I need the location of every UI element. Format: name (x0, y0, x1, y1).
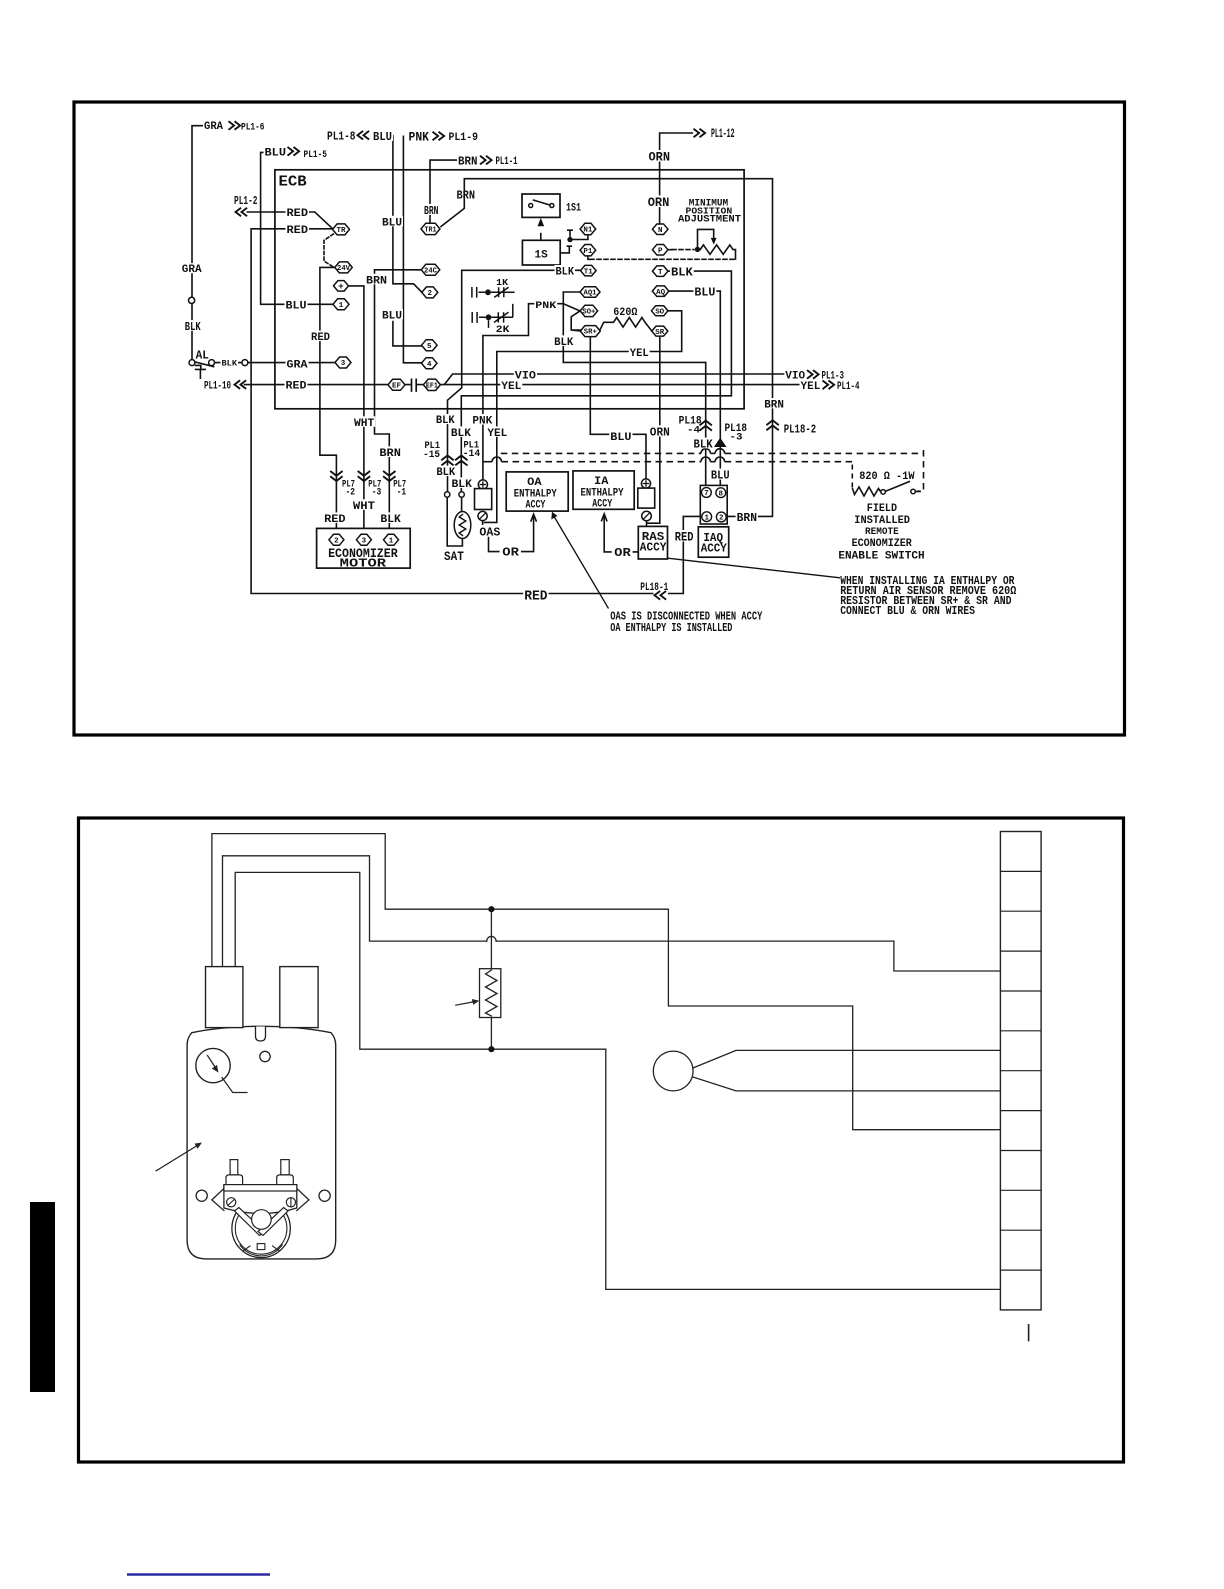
sensor flag wires to strip rows 6 and 7 (693, 1050, 1001, 1091)
label RED on 24V drop (310, 331, 331, 342)
bolt left shaft (230, 1160, 238, 1175)
svg-text:PL1-10: PL1-10 (204, 380, 231, 392)
svg-text:SO: SO (655, 309, 664, 317)
svg-text:OAS: OAS (479, 526, 500, 539)
wire RED row2 down left side, bottom RED run, up to IAQ terminal 1 (251, 229, 702, 594)
bottom panel border (79, 818, 1124, 1462)
svg-text:EF: EF (392, 383, 401, 391)
left black tab (30, 1202, 55, 1392)
label BLK PL18-4 drop (693, 438, 714, 449)
switch circle left (881, 490, 886, 495)
svg-text:3: 3 (362, 538, 367, 546)
label PNK arrow PL1-9 (408, 130, 431, 142)
svg-text:BLU: BLU (373, 130, 392, 144)
wire BLU segment to terminal 5 (393, 322, 422, 346)
wheel lower details (240, 1245, 282, 1256)
trimpot 2K (472, 304, 513, 323)
arrow PL1-12 label (694, 129, 706, 138)
IAQ block terminal 7 (702, 488, 712, 498)
terminal EF (388, 379, 405, 390)
label RED IAQ terminal 1 (674, 530, 695, 542)
dashed row upper (to remote enable switch) (501, 452, 701, 454)
junction dot pot (695, 247, 700, 252)
svg-text:1: 1 (339, 302, 344, 310)
terminal EF1 (423, 379, 440, 390)
label BLK PL1-14 lower (451, 477, 473, 488)
connector PL7-3 arrow (358, 471, 370, 481)
RAS sensor body (638, 488, 655, 508)
label 620ohm (612, 306, 638, 316)
blue underline bottom left (127, 1573, 270, 1576)
svg-text:BRN: BRN (737, 512, 757, 525)
svg-text:GRA: GRA (204, 121, 223, 133)
box IAQ ACCY (698, 527, 728, 557)
label BLU row (285, 299, 308, 310)
dashed link TR to 24V (324, 234, 334, 267)
svg-text:PL1-1: PL1-1 (496, 156, 518, 168)
svg-text:MOTOR: MOTOR (340, 556, 386, 570)
terminal 3 (335, 357, 351, 368)
terminal P (652, 244, 668, 255)
svg-text:TR: TR (337, 227, 346, 235)
arrow pointing at resistor (456, 1002, 475, 1006)
wire ORN top to N and PL1-12 (660, 133, 693, 224)
svg-text:1: 1 (704, 514, 709, 522)
label PNK jumper (534, 299, 557, 309)
wire GRA row into ECB to terminal 3 (248, 362, 335, 364)
svg-text:PL1-5: PL1-5 (304, 149, 328, 160)
wire BLK stub to GRA row (215, 362, 242, 364)
svg-text:ORN: ORN (649, 151, 671, 165)
svg-text:BLK: BLK (185, 321, 201, 334)
junction dot resistor top (488, 906, 494, 912)
wire RED PL1-10 row to EF (245, 384, 389, 386)
svg-text:GRA: GRA (182, 264, 202, 276)
thermistor SAT (454, 512, 471, 539)
actuator terminal stub left (206, 967, 243, 1028)
leader OAS note with arrowhead (554, 516, 609, 609)
svg-text:+: + (338, 282, 343, 292)
svg-text:T: T (658, 269, 663, 277)
IAQ block terminal 1 (702, 512, 712, 522)
wire dot to N1 (570, 235, 588, 240)
svg-text:BRN: BRN (458, 155, 478, 169)
svg-text:SAT: SAT (444, 549, 464, 564)
tick below strip (1028, 1325, 1030, 1341)
wire B actuator to strip row4 (223, 856, 1001, 971)
wire GRA vertical to PL1-6 (192, 126, 205, 360)
svg-text:P1: P1 (583, 248, 592, 256)
svg-text:PNK: PNK (535, 300, 557, 312)
svg-text:-4: -4 (687, 424, 700, 436)
svg-text:N: N (658, 227, 663, 235)
svg-text:BRN: BRN (379, 448, 401, 460)
svg-text:CONNECT BLU & ORN WIRES: CONNECT BLU & ORN WIRES (840, 605, 975, 618)
label BLU RAS link (609, 431, 632, 441)
svg-text:RED: RED (286, 381, 307, 393)
svg-text:FIELD: FIELD (867, 503, 897, 515)
wire jumper SO+ to SR+ (571, 311, 581, 331)
svg-text:YEL: YEL (501, 381, 521, 393)
ECB board outline (275, 170, 744, 409)
bracket screw left (227, 1198, 236, 1207)
label PNK OAS drop (471, 414, 493, 425)
svg-text:ACCY: ACCY (592, 498, 612, 510)
svg-text:OR: OR (502, 546, 520, 560)
coupler wheel inner rim (235, 1203, 287, 1255)
splice circle PL1-14/SAT (459, 492, 464, 497)
terminal N1 (580, 223, 596, 234)
svg-text:2: 2 (334, 538, 339, 546)
actuator keyhole notch (256, 1027, 266, 1042)
terminal 2 (422, 287, 438, 298)
terminal 4 (421, 358, 437, 369)
svg-text:BLU: BLU (265, 148, 287, 160)
svg-text:BLU: BLU (286, 300, 307, 312)
label YEL row left (500, 380, 522, 391)
label RED motor (323, 512, 347, 523)
wire SO right riser to YEL row down to OAS minus node (485, 311, 682, 523)
wire VIO from EF1 to PL1-3 (445, 374, 784, 384)
svg-text:ECB: ECB (279, 175, 308, 191)
svg-text:REMOTE: REMOTE (865, 526, 899, 538)
actuator terminal stub right (280, 967, 318, 1028)
coupler wheel outer (232, 1199, 290, 1257)
svg-text:BLU: BLU (382, 310, 402, 322)
wire RAS minus node to ORN and RAS ACCY (647, 521, 660, 527)
wire BLK T1 drop to PL1-15 and SAT loop (447, 270, 580, 546)
switch AL right contact (209, 360, 215, 366)
svg-text:ACCY: ACCY (640, 541, 667, 554)
svg-text:ADJUSTMENT: ADJUSTMENT (678, 215, 741, 226)
terminal AQ1 (580, 287, 600, 298)
minimum position potentiometer: dashed from P (668, 249, 672, 251)
svg-text:T1: T1 (584, 268, 593, 276)
svg-text:24C: 24C (424, 267, 438, 275)
terminal T1 (581, 265, 597, 276)
wire PNK diagonal to SO+ (563, 304, 580, 311)
svg-text:4: 4 (427, 361, 432, 369)
label ECB (276, 172, 308, 188)
svg-text:2: 2 (719, 515, 724, 523)
connector PL1-14 arrow (455, 456, 467, 466)
wire IA box OR link to RAS ACCY (604, 525, 638, 552)
label YEL arrow PL1-4 (800, 380, 822, 391)
label BLK motor (379, 512, 402, 523)
wire BLU from SR+ down to RAS plus (590, 337, 646, 479)
svg-text:YEL: YEL (630, 348, 649, 360)
label BLK left wire (184, 320, 202, 331)
leader RAS note (668, 558, 840, 578)
label WHT below ECB (353, 416, 375, 427)
wire YEL from EF1 to PL1-4 (441, 384, 800, 386)
motor terminal 1 (384, 534, 399, 545)
wire PNK PL1-9 drop to terminal 4 (403, 136, 421, 362)
dashed from P1 to pot end (588, 256, 590, 259)
svg-text:ORN: ORN (650, 426, 670, 440)
svg-text:BLK: BLK (451, 428, 471, 440)
RAS sensor minus terminal (642, 511, 652, 521)
svg-text:3: 3 (341, 360, 346, 368)
RAS sensor plus terminal (641, 479, 650, 488)
wire EF capacitor gap (405, 384, 424, 386)
motor terminal 3 (356, 534, 371, 545)
actuator body (187, 1026, 336, 1259)
OAS sensor minus terminal (478, 511, 487, 520)
svg-text:RED: RED (324, 514, 346, 526)
motor terminal 2 (329, 534, 344, 545)
connector PL1-15 arrow (441, 456, 453, 466)
svg-text:2K: 2K (496, 325, 510, 336)
resistor 620ohm between SR+ and SR (599, 318, 652, 332)
label GRA left wire (181, 263, 203, 273)
connector PL7-1 arrow (383, 471, 395, 481)
label BLK PL1-15 lower (435, 466, 456, 477)
svg-text:-3: -3 (372, 487, 382, 498)
svg-text:SR+: SR+ (584, 329, 597, 337)
label BLK PL1-15 upper (435, 414, 456, 424)
wire BLK T drop via right riser to PL1-14 and SAT top (461, 271, 731, 512)
bolt left nut (226, 1175, 243, 1185)
label BRN on 24C drop (365, 274, 388, 285)
svg-text:WHT: WHT (353, 501, 375, 513)
actuator mount hole right (319, 1190, 330, 1201)
svg-text:PL1-2: PL1-2 (234, 194, 258, 208)
svg-text:2: 2 (428, 290, 433, 298)
terminal N (652, 224, 668, 235)
box RAS ACCY (638, 526, 667, 559)
wire 24C BRN drop to PL7-1 motor 1 (375, 270, 422, 535)
terminal 1 (333, 299, 349, 310)
switch AL left contact (189, 360, 195, 366)
junction dot near N1 (567, 237, 572, 242)
svg-text:PL18-2: PL18-2 (784, 422, 816, 436)
svg-text:BRN: BRN (366, 275, 387, 287)
wire 24V to RED drop to PL7-2 motor 2 (320, 267, 337, 534)
wire BLU PL1-5 down to terminal 1 of ECB (261, 152, 334, 304)
label BLU arrow PL1-5 (264, 146, 288, 157)
svg-text:SR: SR (655, 329, 664, 337)
svg-text:BLK: BLK (436, 415, 455, 427)
terminal 5 (422, 340, 438, 351)
actuator gauge dial (196, 1048, 230, 1082)
wire BLU PL1-8 drop to terminal 2 (393, 136, 422, 293)
label OAS (478, 526, 501, 537)
bolt right nut (277, 1175, 294, 1185)
label VIO row left (514, 369, 537, 380)
terminal T (652, 266, 668, 277)
arrow 1S to 1S1 (538, 218, 545, 226)
svg-text:OA ENTHALPY IS INSTALLED: OA ENTHALPY IS INSTALLED (610, 621, 732, 635)
switch circle right (911, 489, 916, 494)
resistor 820 ohm with switch (field installed) (852, 487, 881, 496)
svg-text:-2: -2 (346, 487, 356, 498)
IAQ block terminal 8 (716, 488, 726, 498)
wire BRN from TR1 up to PL1-1 (430, 160, 458, 223)
capacitor bars EF/EF1 (412, 379, 417, 391)
label BLK T row (670, 265, 694, 276)
svg-text:-15: -15 (423, 450, 440, 461)
connector PL7-2 arrow (330, 471, 342, 481)
box ECONOMIZER MOTOR (317, 528, 411, 568)
label ORN upper (648, 150, 672, 162)
terminal P1 (580, 245, 596, 256)
wire PNK jumper from SO+ junction to OAS plus (483, 304, 563, 480)
wire OAS minus to OR link (483, 521, 534, 552)
switch blade (885, 481, 910, 491)
switch stub (915, 491, 920, 493)
splice circle on GRA wire (189, 297, 195, 303)
connector PL18-3 solid arrow (714, 438, 727, 447)
svg-text:BLU: BLU (694, 285, 715, 299)
svg-text:N1: N1 (583, 227, 592, 235)
terminal strip (1000, 832, 1041, 1310)
label BLK PL1-14 upper (450, 426, 472, 436)
svg-text:BRN: BRN (764, 399, 784, 411)
bracket top bar (224, 1185, 297, 1191)
label BRN on TR1 drop (423, 204, 440, 215)
svg-text:BLK: BLK (436, 467, 455, 479)
wire AQ1 BLK to PL18-4 and IAQ terminal 7 (563, 292, 705, 488)
switch AL step symbol (196, 365, 206, 378)
bolt right shaft (281, 1160, 289, 1175)
label WHT motor (352, 499, 376, 510)
wire BRN from TR1 via riser to right-side BRN drop to IAQ terminal 2 (441, 179, 773, 517)
label BLK at switch (221, 358, 239, 366)
svg-text:ACCY: ACCY (701, 542, 727, 555)
svg-text:GRA: GRA (287, 360, 308, 372)
svg-text:BLK: BLK (554, 337, 573, 349)
box IA ENTHALPY ACCY (573, 471, 634, 509)
label PL18-1 + arrow (639, 580, 669, 591)
label BLK T1 row (555, 265, 576, 276)
svg-text:BLK: BLK (222, 360, 238, 369)
OAS sensor plus terminal (478, 480, 487, 489)
actuator screw top (260, 1051, 270, 1061)
svg-text:BRN: BRN (424, 204, 439, 218)
svg-text:1S1: 1S1 (566, 203, 581, 215)
svg-text:7: 7 (704, 490, 709, 498)
svg-text:YEL: YEL (487, 428, 507, 440)
svg-text:BLK: BLK (380, 514, 401, 526)
box OA ENTHALPY ACCY (506, 472, 568, 511)
junction dot resistor bottom (488, 1046, 494, 1052)
terminal SR (652, 326, 668, 336)
svg-text:BLU: BLU (382, 217, 402, 229)
terminal TR1 (421, 223, 440, 234)
svg-text:BLK: BLK (671, 265, 694, 279)
svg-text:BLU: BLU (610, 432, 631, 444)
V arm right (258, 1208, 288, 1236)
svg-text:1S: 1S (535, 249, 548, 261)
svg-text:OR: OR (614, 546, 632, 560)
IAQ terminal block 7 8 1 2 (700, 485, 727, 524)
svg-text:-3: -3 (730, 432, 743, 443)
center ball (252, 1210, 272, 1230)
gauge pointer tail (222, 1078, 247, 1093)
label RED PL1-10 row (285, 379, 308, 390)
splice circle PL1-15/SAT (445, 492, 450, 497)
bracket screw right (286, 1198, 295, 1207)
actuator mount hole left (196, 1190, 207, 1201)
svg-text:RED: RED (524, 590, 547, 605)
svg-text:WHT: WHT (354, 418, 375, 430)
svg-text:SO+: SO+ (582, 308, 595, 316)
terminal AQ (652, 286, 669, 297)
svg-text:620Ω: 620Ω (613, 307, 638, 319)
label BLU on PL1-8 drop lower (381, 309, 403, 320)
label BLU AQ row (693, 286, 716, 297)
bracket plate (224, 1185, 297, 1214)
svg-text:OA: OA (527, 477, 542, 489)
trimpot 1K (472, 287, 515, 298)
terminal SR+ (580, 326, 600, 337)
label ORN RAS drop (649, 425, 671, 436)
svg-text:PL1-8: PL1-8 (327, 130, 356, 144)
svg-text:BLK: BLK (694, 438, 713, 451)
svg-text:BRN: BRN (457, 189, 476, 203)
svg-text:AL: AL (196, 349, 209, 362)
svg-text:PL1-9: PL1-9 (449, 132, 479, 144)
switch box 1S1 (522, 194, 560, 217)
wire plus-terminal WHT drop to PL7-3 motor 3 (349, 286, 364, 535)
wire BLU from AQ down to PL18-3 and IAQ terminal 8 (669, 291, 720, 488)
svg-text:ENABLE SWITCH: ENABLE SWITCH (838, 550, 924, 562)
label YEL row (SO) (629, 347, 650, 357)
resistor (vertical) (490, 911, 492, 1048)
label GRA row (286, 358, 309, 369)
terminal 24C (421, 264, 440, 275)
wire A actuator to strip row8 via resistor node (212, 834, 1001, 1130)
connector PL18-2 arrow (766, 420, 778, 430)
label YEL OAS drop (486, 426, 508, 436)
dashed row lower (to 820ohm resistor) (483, 461, 492, 463)
svg-text:820 Ω -1W: 820 Ω -1W (859, 471, 915, 483)
svg-text:ECONOMIZER: ECONOMIZER (852, 538, 913, 550)
leader arrow to actuator (156, 1145, 197, 1171)
svg-text:RED: RED (311, 332, 330, 344)
wire C actuator to strip row12 (235, 872, 1000, 1289)
label GRA + arrow PL1-6 (203, 120, 224, 131)
label RED bottom run (523, 589, 548, 601)
label VIO arrow PL1-3 (784, 369, 806, 379)
label ORN mid (647, 195, 671, 207)
V arm left (235, 1208, 265, 1236)
label BLK AQ1 drop (553, 335, 574, 346)
svg-text:AQ1: AQ1 (584, 290, 598, 298)
svg-text:INSTALLED: INSTALLED (854, 515, 910, 527)
svg-text:1K: 1K (496, 277, 508, 288)
top panel border (74, 102, 1125, 735)
svg-text:BLK: BLK (452, 479, 473, 491)
sensor circle (653, 1051, 693, 1091)
label BRN arrow PL1-1 (457, 155, 479, 166)
1S right side disconnect stub (560, 246, 572, 253)
svg-text:PNK: PNK (409, 131, 430, 145)
svg-text:BLK: BLK (556, 267, 575, 279)
label BRN on PL7-1 drop (378, 446, 402, 457)
bracket wing right (297, 1189, 309, 1211)
OAS sensor body (475, 489, 492, 510)
svg-text:5: 5 (427, 343, 432, 351)
potentiometer wiper arrow (698, 229, 714, 246)
label BRN IAQ terminal 2 (736, 511, 758, 522)
svg-text:BLU: BLU (711, 469, 730, 483)
label BLU on PL1-8 drop upper (381, 216, 403, 227)
terminal plus (334, 281, 349, 292)
svg-text:P: P (658, 247, 663, 255)
svg-text:IA: IA (594, 476, 609, 488)
